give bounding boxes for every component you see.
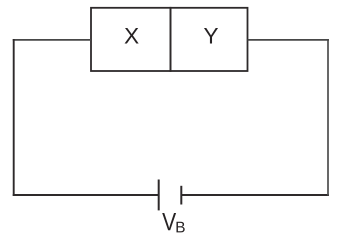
label Y [204,28,218,44]
wire: right vertical rail [327,39,329,196]
component Y (right cell of series box) [171,8,248,71]
wire: left rail top segment (box left to corner) [13,39,91,41]
label VB (battery voltage): B subscript [176,222,184,233]
battery VB : long plate (left) [158,180,160,211]
label X [125,28,139,44]
wire: bottom left segment (corner to battery) [13,194,159,196]
wire: right rail top segment (corner to box right) [248,39,329,41]
component X (left cell of series box) [91,8,171,71]
wire: left vertical rail [13,39,15,196]
label VB (battery voltage): V [162,213,176,230]
battery VB : short plate (right) [180,186,182,205]
wire: bottom right segment (battery to corner) [181,194,329,196]
